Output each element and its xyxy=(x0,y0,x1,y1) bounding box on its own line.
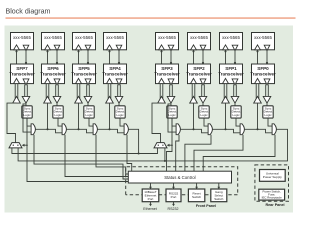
optical input buffer (up triangle) of xxx-5565 #8 xyxy=(255,45,261,50)
svg-text:SFP2: SFP2 xyxy=(193,66,205,71)
diagram background xyxy=(5,26,294,213)
optical output buffer (down triangle) of xxx-5565 #6 xyxy=(200,45,206,50)
TX line driver U7A (up triangle buffer) xyxy=(222,96,230,103)
optical input buffer (up triangle) of xxx-5565 #6 xyxy=(191,45,197,50)
RX line receiver U3B (down triangle buffer) xyxy=(84,96,92,103)
svg-text:Transceiver: Transceiver xyxy=(40,71,66,76)
wire: mux M1 status line to Status&Control left edge xyxy=(34,135,128,179)
svg-text:xxx-5565: xxx-5565 xyxy=(222,35,240,40)
wire: differential TX pair up into SFP7 xyxy=(15,84,18,100)
optical output buffer (down triangle) of xxx-5565 #4 xyxy=(116,45,122,50)
svg-text:Port: Port xyxy=(171,195,177,199)
optical input buffer (up triangle) of xxx-5565 #4 xyxy=(107,45,113,50)
svg-text:Logic: Logic xyxy=(264,113,272,117)
wire: differential TX pair up into SFP2 xyxy=(192,84,195,100)
wire: differential TX pair up into SFP4 xyxy=(108,84,111,100)
svg-text:SFP0: SFP0 xyxy=(257,66,269,71)
wire: mux M7 status line to Status&Control top xyxy=(194,135,243,172)
TX line driver U5A (up triangle buffer) xyxy=(158,96,166,103)
wire: sync detect #8 output to bypass mux top input xyxy=(268,118,272,126)
optical output buffer (down triangle) of xxx-5565 #3 xyxy=(85,45,91,50)
gang source mux (trapezoid) group B xyxy=(154,143,167,148)
svg-text:Switch: Switch xyxy=(214,197,223,201)
node xxx-5565 #8 (external node box, channel 0) xyxy=(252,33,275,50)
SFP SFP0 RX output buffer (down triangle) xyxy=(264,79,270,85)
wire: fiber from node #7 RX down to SFP (with junction dot) xyxy=(224,50,226,64)
sync detect logic #5 xyxy=(167,106,177,118)
wire: fiber from node #8 RX down to SFP (with junction dot) xyxy=(256,50,258,64)
wire: fiber from node #6 TX down to SFP (with junction dot) xyxy=(202,50,204,64)
RX line receiver U5B (down triangle buffer) xyxy=(167,96,175,103)
bypass mux M6 (2:1 multiplexer, D shape) xyxy=(208,124,212,135)
wire: ethernet external connection arrow xyxy=(149,202,152,207)
wire: differential TX pair up into SFP1 xyxy=(224,84,227,100)
wire: Status&Control to ethernet port (arrow) xyxy=(149,183,152,189)
wire: Status&Control to rs232 port (arrow) xyxy=(172,183,175,189)
sync detect logic #2 xyxy=(53,106,63,118)
wire: fiber from node #8 TX down to SFP (with junction dot) xyxy=(266,50,268,64)
wire: mux M3 status line to Status&Control left edge xyxy=(96,135,128,174)
RX line receiver U8B (down triangle buffer) xyxy=(263,96,271,103)
wire: sync detect #4 output to bypass mux top input xyxy=(120,118,124,126)
TX line driver U4A (up triangle buffer) xyxy=(106,96,114,103)
svg-text:Front Panel: Front Panel xyxy=(196,204,216,208)
svg-text:IEC Receptacle: IEC Receptacle xyxy=(262,196,282,200)
wire: RX receiver output into sync detect #1 xyxy=(25,103,27,106)
universal power supply xyxy=(260,170,286,182)
wire: mux M4 status line to Status&Control top xyxy=(127,135,132,172)
wire: sync detect #1 output to bypass mux top input xyxy=(27,118,31,126)
svg-text:SFP3: SFP3 xyxy=(161,66,173,71)
TX line driver U8A (up triangle buffer) xyxy=(254,96,262,103)
wire: fiber from node #4 RX down to SFP (with junction dot) xyxy=(108,50,110,64)
SFP SFP7 TX input buffer (up triangle) xyxy=(14,78,20,83)
reset switch xyxy=(188,189,204,202)
RX line receiver U4B (down triangle buffer) xyxy=(115,96,123,103)
svg-text:xxx-5565: xxx-5565 xyxy=(254,35,272,40)
svg-text:Transceiver: Transceiver xyxy=(186,71,212,76)
SFP SFP5 RX output buffer (down triangle) xyxy=(85,79,91,85)
svg-text:Ethernet: Ethernet xyxy=(143,207,157,211)
wire: fiber from node #2 RX down to SFP (with junction dot) xyxy=(46,50,48,64)
wire: sync detect #6 output to bypass mux top input xyxy=(204,118,208,126)
status and control box xyxy=(128,171,231,183)
wire: RX receiver output into sync detect #8 xyxy=(266,103,268,106)
svg-text:Logic: Logic xyxy=(23,113,31,117)
wire: riser to TX driver of channel 1 xyxy=(225,103,227,129)
wire: trapezoid mux group B output up to first TX driver xyxy=(152,103,162,143)
node xxx-5565 #7 (external node box, channel 1) xyxy=(220,33,243,50)
node xxx-5565 #3 (external node box, channel 5) xyxy=(73,33,96,50)
wire: differential RX pair down from SFP2 xyxy=(202,84,205,97)
wire: differential TX pair up into SFP3 xyxy=(160,84,163,100)
svg-text:SFP1: SFP1 xyxy=(225,66,237,71)
svg-text:Transceiver: Transceiver xyxy=(250,71,276,76)
wire: sync detect #2 output to bypass mux top input xyxy=(58,118,62,126)
wire: RX receiver output into sync detect #2 xyxy=(56,103,58,106)
optical output buffer (down triangle) of xxx-5565 #7 xyxy=(232,45,238,50)
svg-text:xxx-5565: xxx-5565 xyxy=(75,35,93,40)
node xxx-5565 #4 (external node box, channel 4) xyxy=(104,33,127,50)
wire: RX receiver output into sync detect #5 xyxy=(170,103,172,106)
wire: differential TX pair up into SFP5 xyxy=(77,84,80,100)
wire: mux M6 output chained to next channel (group B) xyxy=(213,128,241,133)
sync detect logic #1 xyxy=(22,106,32,118)
transceiver SFP7 xyxy=(9,64,35,84)
wire: riser to TX driver of channel 2 xyxy=(193,103,195,129)
bypass mux M4 (2:1 multiplexer, D shape) xyxy=(124,124,128,135)
optical input buffer (up triangle) of xxx-5565 #7 xyxy=(223,45,229,50)
wire: mux M5 status line to Status&Control top xyxy=(176,135,179,172)
wire: fiber from node #1 TX down to SFP (with junction dot) xyxy=(25,50,27,64)
RX line receiver U1B (down triangle buffer) xyxy=(22,96,30,103)
wire: riser to TX driver of channel 0 xyxy=(257,103,259,129)
wire: differential RX pair down from SFP3 xyxy=(170,84,173,97)
svg-text:Rear Panel: Rear Panel xyxy=(265,203,284,207)
transceiver SFP2 xyxy=(186,64,212,84)
sync detect logic #6 xyxy=(199,106,209,118)
wire: select line with arrow into trapezoid mux group B xyxy=(167,118,173,146)
svg-text:xxx-5565: xxx-5565 xyxy=(190,35,208,40)
wire: gang bus line 2 (group B result wrap-around to both trapezoid muxes) xyxy=(18,129,287,161)
wire: RX receiver output into sync detect #7 xyxy=(234,103,236,106)
optical input buffer (up triangle) of xxx-5565 #3 xyxy=(76,45,82,50)
optical input buffer (up triangle) of xxx-5565 #1 xyxy=(14,45,20,50)
wire: riser to TX driver of channel 4 xyxy=(109,103,111,129)
power switch fuse IEC receptacle xyxy=(259,189,285,200)
SFP SFP6 RX output buffer (down triangle) xyxy=(54,79,60,85)
svg-text:SFP4: SFP4 xyxy=(109,66,121,71)
wire: riser to TX driver of channel 5 xyxy=(78,103,80,129)
TX line driver U6A (up triangle buffer) xyxy=(190,96,198,103)
SFP SFP2 TX input buffer (up triangle) xyxy=(191,78,197,83)
SFP SFP1 TX input buffer (up triangle) xyxy=(223,78,229,83)
transceiver SFP5 xyxy=(71,64,97,84)
wire: fiber from node #4 TX down to SFP (with junction dot) xyxy=(118,50,120,64)
wire: differential TX pair up into SFP6 xyxy=(46,84,49,100)
wire: trapezoid mux group A output up to first TX driver xyxy=(7,103,17,143)
SFP SFP1 RX output buffer (down triangle) xyxy=(232,79,238,85)
svg-text:Port: Port xyxy=(148,197,154,201)
gang select switch xyxy=(211,189,227,202)
front panel dashed boundary xyxy=(126,167,238,195)
node xxx-5565 #5 (external node box, channel 3) xyxy=(156,33,179,50)
wire: RX receiver output into sync detect #3 xyxy=(87,103,89,106)
transceiver SFP3 xyxy=(154,64,180,84)
svg-text:Logic: Logic xyxy=(85,113,93,117)
wire: fiber from node #3 RX down to SFP (with junction dot) xyxy=(77,50,79,64)
RX line receiver U7B (down triangle buffer) xyxy=(231,96,239,103)
node xxx-5565 #6 (external node box, channel 2) xyxy=(188,33,211,50)
wire: fiber from node #1 RX down to SFP (with junction dot) xyxy=(15,50,17,64)
wire: fiber from node #5 TX down to SFP (with junction dot) xyxy=(170,50,172,64)
TX line driver U3A (up triangle buffer) xyxy=(75,96,83,103)
transceiver SFP0 xyxy=(250,64,276,84)
wire: gang bus line 1 (group A result to both trapezoid muxes) xyxy=(12,148,158,154)
svg-text:Transceiver: Transceiver xyxy=(71,71,97,76)
optical output buffer (down triangle) of xxx-5565 #5 xyxy=(168,45,174,50)
wire: select line with arrow into trapezoid mux group A xyxy=(22,118,28,146)
svg-text:Transceiver: Transceiver xyxy=(154,71,180,76)
node xxx-5565 #2 (external node box, channel 6) xyxy=(42,33,65,50)
svg-text:Status & Control: Status & Control xyxy=(164,175,195,180)
ethernet port xyxy=(142,189,159,202)
transceiver SFP4 xyxy=(102,64,128,84)
bypass mux M8 (2:1 multiplexer, D shape) xyxy=(272,124,276,135)
TX line driver U2A (up triangle buffer) xyxy=(44,96,52,103)
wire: fiber from node #3 TX down to SFP (with junction dot) xyxy=(87,50,89,64)
rs232 port xyxy=(166,189,181,202)
wire: sync detect #5 output to bypass mux top input xyxy=(172,118,176,126)
wire: differential RX pair down from SFP1 xyxy=(234,84,237,97)
sync detect logic #3 xyxy=(84,106,94,118)
wire: mux M2 output chained to next channel (group A) xyxy=(67,128,94,133)
bypass mux M2 (2:1 multiplexer, D shape) xyxy=(62,124,66,135)
optical input buffer (up triangle) of xxx-5565 #5 xyxy=(159,45,165,50)
SFP SFP0 TX input buffer (up triangle) xyxy=(255,78,261,83)
wire: mux M4 output joins gang bus line 1 xyxy=(129,129,140,154)
wire: RX receiver output into sync detect #4 xyxy=(118,103,120,106)
svg-text:Transceiver: Transceiver xyxy=(9,71,35,76)
bypass mux M7 (2:1 multiplexer, D shape) xyxy=(240,124,244,135)
svg-text:xxx-5565: xxx-5565 xyxy=(44,35,62,40)
wire: mux M1 output chained to next channel (group A) xyxy=(36,128,63,133)
SFP SFP2 RX output buffer (down triangle) xyxy=(200,79,206,85)
wire: riser to TX driver of channel 6 xyxy=(47,103,49,129)
bypass mux M3 (2:1 multiplexer, D shape) xyxy=(93,124,97,135)
svg-text:Logic: Logic xyxy=(200,113,208,117)
SFP SFP3 RX output buffer (down triangle) xyxy=(168,79,174,85)
wire: RS232 external connection arrow xyxy=(172,202,175,207)
wire: RX receiver output into sync detect #6 xyxy=(202,103,204,106)
svg-text:Logic: Logic xyxy=(54,113,62,117)
svg-text:RS232: RS232 xyxy=(168,207,179,211)
wire: mux M6 status line to Status&Control top xyxy=(185,135,211,172)
wire: local RX branch to mux M1 bottom input (group A) xyxy=(23,104,31,132)
wire: differential TX pair up into SFP0 xyxy=(256,84,259,100)
node xxx-5565 #1 (external node box, channel 7) xyxy=(11,33,34,50)
wire: mux M5 output chained to next channel (group B) xyxy=(181,128,209,133)
gang source mux (trapezoid) group A xyxy=(9,143,22,148)
SFP SFP6 TX input buffer (up triangle) xyxy=(45,78,51,83)
svg-text:SFP5: SFP5 xyxy=(78,66,90,71)
wire: mux M2 status line to Status&Control left edge xyxy=(65,135,128,177)
svg-text:Logic: Logic xyxy=(168,113,176,117)
svg-text:Switch: Switch xyxy=(192,195,201,199)
wire: mux M3 output chained to next channel (group A) xyxy=(98,128,125,133)
transceiver SFP1 xyxy=(218,64,244,84)
RX line receiver U2B (down triangle buffer) xyxy=(53,96,61,103)
svg-text:Logic: Logic xyxy=(232,113,240,117)
SFP SFP4 RX output buffer (down triangle) xyxy=(116,79,122,85)
svg-text:Block diagram: Block diagram xyxy=(6,8,51,16)
svg-text:SFP6: SFP6 xyxy=(47,66,59,71)
wire: sync detect #3 output to bypass mux top input xyxy=(89,118,93,126)
RX line receiver U6B (down triangle buffer) xyxy=(199,96,207,103)
rear panel dashed boundary xyxy=(255,165,289,201)
wire: Status&Control to reset switch (arrow) xyxy=(195,183,198,189)
TX line driver U1A (up triangle buffer) xyxy=(13,96,21,103)
wire: gang bus line 2 branch up into group B trapezoid mux xyxy=(164,148,166,162)
optical output buffer (down triangle) of xxx-5565 #1 xyxy=(23,45,29,50)
sync detect logic #4 xyxy=(115,106,125,118)
wire: local RX branch to mux M5 bottom input (group B) xyxy=(168,104,176,132)
optical output buffer (down triangle) of xxx-5565 #2 xyxy=(54,45,60,50)
orange rule xyxy=(6,18,296,19)
wire: differential RX pair down from SFP7 xyxy=(25,84,28,97)
SFP SFP3 TX input buffer (up triangle) xyxy=(159,78,165,83)
wire: mux M8 status line to Status&Control top xyxy=(203,135,275,172)
wire: group A select/status line to Status&Control left edge xyxy=(27,145,128,181)
svg-text:Logic: Logic xyxy=(116,113,124,117)
wire: fiber from node #5 RX down to SFP (with junction dot) xyxy=(160,50,162,64)
optical output buffer (down triangle) of xxx-5565 #8 xyxy=(264,45,270,50)
wire: differential RX pair down from SFP4 xyxy=(118,84,121,97)
optical input buffer (up triangle) of xxx-5565 #2 xyxy=(45,45,51,50)
SFP SFP4 TX input buffer (up triangle) xyxy=(107,78,113,83)
bypass mux M1 (2:1 multiplexer, D shape) xyxy=(31,124,35,135)
sync detect logic #7 xyxy=(231,106,241,118)
sync detect logic #8 xyxy=(263,106,273,118)
svg-text:xxx-5565: xxx-5565 xyxy=(106,35,124,40)
svg-text:Transceiver: Transceiver xyxy=(102,71,128,76)
wire: Status&Control to gang select switch (arrow) xyxy=(217,183,220,189)
wire: fiber from node #7 TX down to SFP (with junction dot) xyxy=(234,50,236,64)
bypass mux M5 (2:1 multiplexer, D shape) xyxy=(176,124,180,135)
wire: fiber from node #6 RX down to SFP (with junction dot) xyxy=(192,50,194,64)
wire: sync detect #7 output to bypass mux top input xyxy=(236,118,240,126)
svg-text:Power Supply: Power Supply xyxy=(263,175,283,179)
svg-text:xxx-5565: xxx-5565 xyxy=(158,35,176,40)
transceiver SFP6 xyxy=(40,64,66,84)
wire: differential RX pair down from SFP6 xyxy=(56,84,59,97)
SFP SFP7 RX output buffer (down triangle) xyxy=(23,79,29,85)
wire: differential RX pair down from SFP5 xyxy=(87,84,90,97)
wire: group B select/status line down to Status&Control top xyxy=(167,145,173,171)
svg-text:Transceiver: Transceiver xyxy=(218,71,244,76)
svg-text:xxx-5565: xxx-5565 xyxy=(13,35,31,40)
wire: differential RX pair down from SFP0 xyxy=(266,84,269,97)
wire: fiber from node #2 TX down to SFP (with junction dot) xyxy=(56,50,58,64)
svg-text:SFP7: SFP7 xyxy=(16,66,28,71)
wire: mux M7 output chained to next channel (group B) xyxy=(245,128,273,133)
SFP SFP5 TX input buffer (up triangle) xyxy=(76,78,82,83)
